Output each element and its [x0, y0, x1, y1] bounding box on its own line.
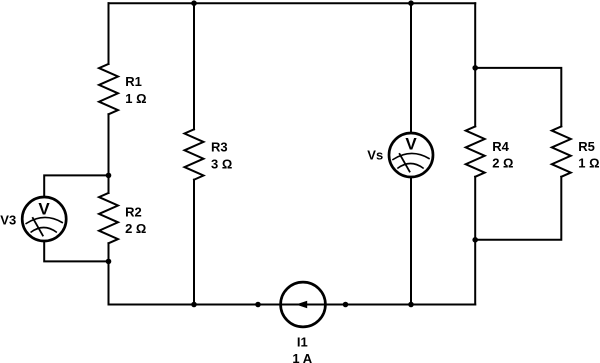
svg-text:V: V — [405, 135, 417, 154]
voltmeter Vs needle — [400, 154, 410, 172]
svg-text:R4: R4 — [492, 139, 509, 154]
wire R3 branch upper — [193, 3, 195, 129]
wire bottom rail — [109, 304, 476, 306]
node I1 left terminal — [255, 302, 261, 308]
voltmeter Vs circle — [389, 133, 433, 177]
wire R5 bottom to merge node — [475, 177, 561, 240]
wire V3 top connection — [44, 175, 108, 197]
wire R4 bottom to bottom rail — [474, 177, 476, 305]
voltmeter V3 face arcs — [26, 217, 62, 232]
svg-text:R3: R3 — [211, 140, 228, 155]
node top rail / R3 branch — [191, 0, 197, 6]
resistor R2 — [99, 193, 118, 243]
svg-text:V3: V3 — [0, 212, 16, 227]
node R4/R5 merge — [472, 237, 478, 243]
node B (R2/V3 bottom) — [106, 259, 112, 265]
node bottom rail / R3 branch — [191, 302, 197, 308]
voltmeter V3 needle — [33, 218, 43, 236]
svg-text:R1: R1 — [125, 74, 142, 89]
current source I1 arrow — [296, 301, 307, 308]
svg-text:R2: R2 — [125, 204, 142, 219]
node R4/R5 split — [472, 65, 478, 71]
voltmeter Vs face arcs — [393, 153, 429, 168]
svg-text:V: V — [38, 199, 50, 218]
svg-text:2 Ω: 2 Ω — [492, 156, 513, 171]
node top rail / Vs branch — [408, 0, 414, 6]
svg-text:1 A: 1 A — [292, 351, 312, 363]
wire split node to R5 top — [475, 68, 561, 127]
svg-text:3 Ω: 3 Ω — [211, 156, 232, 171]
svg-text:Vs: Vs — [367, 147, 383, 162]
node I1 right terminal — [343, 302, 349, 308]
resistor R5 — [552, 126, 571, 176]
svg-text:1 Ω: 1 Ω — [125, 91, 146, 106]
wire Vs branch upper — [410, 3, 412, 133]
wire left branch upper lead — [108, 3, 110, 64]
svg-text:1 Ω: 1 Ω — [578, 156, 599, 171]
wire split node to R4 — [474, 68, 476, 127]
svg-text:R5: R5 — [578, 139, 595, 154]
resistor R4 — [466, 126, 485, 176]
wire R3 branch lower — [193, 180, 195, 305]
voltmeter V3 circle — [22, 197, 66, 241]
wire R1 bottom to node A — [108, 114, 110, 193]
svg-text:2 Ω: 2 Ω — [125, 221, 146, 236]
node A (R1/R2/V3 top) — [106, 173, 112, 179]
wire V3 bottom connection — [44, 241, 108, 261]
node bottom rail / Vs branch — [408, 302, 414, 308]
svg-text:I1: I1 — [297, 335, 308, 350]
resistor R3 — [185, 129, 204, 179]
wire top right corner down to split node — [474, 3, 476, 68]
resistor R1 — [99, 64, 118, 114]
wire top horizontal — [109, 2, 476, 4]
current source I1 circle — [281, 282, 326, 327]
wire R2 bottom to bottom rail — [108, 243, 110, 304]
wire Vs branch lower — [410, 177, 412, 305]
